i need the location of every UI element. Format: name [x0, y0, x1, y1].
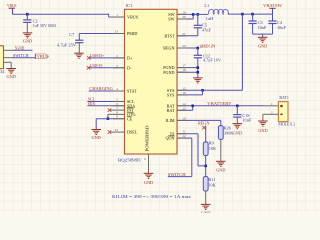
svg-text:C7: C7	[69, 32, 75, 37]
svg-text:USB-D-: USB-D-	[90, 63, 103, 68]
svg-text:GND: GND	[144, 180, 153, 185]
net label REGN	[200, 45, 202, 48]
ground C18	[233, 124, 243, 129]
wire QON to SWITCH	[168, 176, 192, 178]
wire to GND	[262, 34, 264, 37]
svg-text:10uF: 10uF	[277, 25, 286, 30]
pin 1 VBUS (left)	[116, 13, 138, 20]
svg-text:14: 14	[182, 102, 186, 106]
wire SYS rail	[203, 89, 243, 91]
pin stub right	[177, 133, 187, 135]
svg-text:13: 13	[182, 106, 186, 110]
svg-text:REGN: REGN	[202, 44, 216, 49]
svg-text:VBUS: VBUS	[37, 54, 49, 59]
pin stub right	[177, 13, 187, 15]
svg-text:L1: L1	[204, 3, 209, 8]
no-ERC cross	[108, 130, 112, 134]
pin stub BAT1 pin1	[264, 105, 279, 107]
wire TS down	[197, 134, 199, 166]
pin 21 BTST (right)	[164, 32, 186, 39]
wire SWITCH	[13, 57, 35, 59]
svg-text:10: 10	[182, 116, 186, 120]
svg-text:GND: GND	[258, 128, 267, 133]
svg-text:R11: R11	[208, 177, 215, 182]
svg-text:IC1: IC1	[126, 3, 133, 8]
svg-text:15: 15	[182, 86, 186, 90]
ground C7	[74, 53, 84, 58]
pin 19 SW (right)	[168, 10, 186, 17]
capacitor C5	[194, 14, 202, 35]
svg-text:21: 21	[182, 32, 186, 36]
svg-text:BAT1: BAT1	[279, 95, 288, 100]
svg-text:GND: GND	[92, 135, 101, 140]
wire QON down	[191, 138, 193, 177]
svg-text:12: 12	[182, 134, 186, 138]
svg-text:18: 18	[182, 68, 186, 72]
svg-text:REGN: REGN	[163, 46, 174, 51]
svg-text:4: 4	[116, 87, 118, 91]
pin stub right	[177, 35, 187, 37]
wire PMID	[79, 33, 124, 35]
pin stub left	[113, 118, 124, 120]
stub DSEL	[110, 131, 125, 133]
capacitor C2	[23, 14, 31, 33]
svg-text:10K: 10K	[208, 182, 216, 187]
wire CE	[96, 118, 124, 120]
wire SYS pin16	[177, 94, 203, 96]
svg-text:GND: GND	[216, 168, 225, 173]
svg-text:VBATSW: VBATSW	[263, 3, 283, 8]
wire STAT	[89, 90, 125, 92]
svg-text:D-: D-	[127, 65, 132, 70]
pin stub right	[177, 94, 187, 96]
wire R26 to gnd	[220, 139, 222, 161]
port VBUS	[35, 54, 49, 59]
svg-text:17: 17	[182, 64, 186, 68]
capacitor C18	[233, 106, 241, 124]
pin 22 REGN (right)	[163, 44, 186, 51]
svg-text:ILIM: ILIM	[166, 118, 175, 123]
svg-text:19: 19	[182, 10, 186, 14]
svg-text:11: 11	[182, 130, 186, 134]
svg-text:390K: 390K	[224, 130, 234, 135]
wire VBUS to pin1	[13, 13, 109, 15]
svg-text:GND: GND	[258, 44, 267, 49]
connector BAT1	[278, 102, 288, 122]
pin stub left	[113, 105, 124, 107]
no-ERC cross	[87, 66, 91, 70]
wire TS	[177, 133, 198, 135]
svg-text:D+: D+	[127, 56, 133, 61]
pin 4 STAT (left)	[116, 87, 137, 94]
wire ILIM down	[220, 120, 222, 125]
inductor L1	[208, 10, 228, 15]
pin stub left	[113, 16, 124, 18]
stub OTG	[108, 113, 125, 115]
wire PGND riser	[197, 68, 199, 78]
wire SW pin19	[177, 13, 193, 15]
svg-text:10uF: 10uF	[258, 25, 267, 30]
wire SDA	[87, 105, 124, 107]
pin stub 1	[109, 16, 125, 18]
svg-text:0: 0	[144, 157, 146, 161]
pin stub right	[177, 18, 187, 20]
pin 14 BAT (right)	[167, 102, 186, 109]
junction C3	[251, 13, 254, 16]
op-amp IC1 BQ25898D charger IC body	[125, 9, 178, 154]
svg-text:PGND: PGND	[163, 70, 174, 75]
svg-text:VBUS: VBUS	[7, 3, 17, 8]
svg-text:VBUS: VBUS	[127, 15, 139, 20]
pin 2 D+ (left)	[116, 54, 133, 61]
svg-text:4.7uF 25V: 4.7uF 25V	[57, 43, 77, 48]
pin stub left	[113, 101, 124, 103]
svg-text:SYS: SYS	[167, 93, 175, 98]
connector pin stub 3	[4, 61, 12, 63]
pin 3 D- (left)	[116, 64, 132, 71]
connector pin stub	[4, 49, 14, 51]
wire BAT1 pin2 down	[262, 114, 264, 121]
svg-text:1uF 50V 0603: 1uF 50V 0603	[33, 23, 57, 28]
svg-text:BQ25898D: BQ25898D	[118, 158, 141, 163]
pin stub right	[177, 119, 187, 121]
ground C2	[23, 33, 33, 38]
svg-text:GND: GND	[201, 211, 210, 213]
junction SW	[192, 13, 195, 16]
svg-text:GND: GND	[7, 74, 16, 79]
ground C3/C4	[258, 37, 268, 42]
svg-text:PMID: PMID	[127, 31, 137, 36]
wire BAT riser	[192, 106, 194, 111]
wire D-	[89, 67, 125, 69]
ground R11	[201, 204, 211, 209]
wire VBATSW down	[241, 14, 243, 90]
svg-text:GND: GND	[23, 38, 32, 43]
no-ERC cross	[108, 108, 112, 112]
junction SW/C5	[197, 13, 200, 16]
wire SW to L1	[193, 13, 208, 15]
pin stub right	[177, 105, 187, 107]
svg-text:1uH: 1uH	[206, 16, 213, 21]
pin 5 SCL (left)	[116, 98, 135, 105]
junction REGN	[197, 47, 200, 50]
wire SYS riser	[202, 90, 204, 95]
wire BAT pin13	[177, 109, 193, 111]
wire TS to divider	[198, 165, 206, 167]
pin 13 BAT (right)	[167, 106, 186, 113]
junction C18	[236, 105, 239, 108]
wire QON	[177, 137, 192, 139]
wire R9 to R11	[205, 156, 207, 177]
capacitor C12	[194, 48, 202, 68]
svg-text:1: 1	[271, 102, 273, 106]
pin 23 PMID (left)	[115, 30, 138, 37]
pin 17 PGND (right)	[163, 64, 186, 71]
svg-text:SDA: SDA	[88, 101, 96, 106]
svg-text:9: 9	[116, 115, 118, 119]
junction VBUS/C2	[26, 13, 29, 16]
wire SCL	[87, 101, 124, 103]
wire ILIM	[177, 119, 221, 121]
wire R11 to gnd	[205, 191, 207, 204]
svg-text:SWITCH: SWITCH	[13, 53, 29, 58]
no-ERC cross	[87, 56, 91, 60]
wire PGND pin17	[177, 67, 198, 69]
junction PGND18	[197, 71, 200, 74]
ground R26	[216, 161, 226, 166]
pin 8 OTG (left)	[116, 110, 135, 117]
pin 18 PGND (right)	[163, 68, 186, 75]
pin 7 INT (left)	[116, 106, 134, 113]
capacitor C4	[268, 14, 276, 34]
svg-text:24: 24	[115, 128, 119, 132]
svg-text:10K: 10K	[209, 146, 217, 151]
svg-text:5GND: 5GND	[15, 45, 25, 50]
svg-text:MOLEX 2: MOLEX 2	[278, 122, 295, 127]
pin 11 TS (right)	[170, 130, 186, 137]
ground POWERPAD	[144, 173, 154, 178]
pin 12 QON (right)	[166, 134, 186, 141]
pin stub right	[177, 67, 187, 69]
svg-text:R9: R9	[209, 141, 214, 146]
svg-text:SWITCH: SWITCH	[168, 172, 187, 177]
svg-text:16: 16	[182, 91, 186, 95]
junction PGND17	[197, 66, 200, 69]
svg-text:POWERPAD: POWERPAD	[144, 125, 149, 151]
pin stub left	[113, 57, 124, 59]
svg-text:BAT: BAT	[167, 108, 175, 113]
wire VBATTERY	[177, 105, 264, 107]
pin stub left	[113, 90, 124, 92]
resistor R9	[203, 142, 208, 156]
pin stub right	[177, 137, 187, 139]
pin stub left	[113, 67, 124, 69]
resistor R11	[203, 177, 208, 192]
pin stub right	[177, 47, 187, 49]
svg-text:CE: CE	[127, 116, 133, 121]
wire D+	[89, 57, 125, 59]
pin 20 SW (right)	[168, 15, 186, 22]
svg-text:23: 23	[115, 30, 119, 34]
pin 9 CE (left)	[116, 115, 132, 122]
svg-text:KILIM = 390 => 390/390 = 1A ma: KILIM = 390 => 390/390 = 1A max	[112, 194, 192, 199]
ground CE	[91, 130, 101, 135]
connector USB/SW at sheet edge	[0, 46, 4, 69]
pin 16 SYS (right)	[167, 91, 186, 98]
svg-text:SW: SW	[168, 17, 174, 22]
svg-text:GND: GND	[233, 131, 242, 136]
svg-text:10uF: 10uF	[242, 118, 251, 123]
power port VBUS	[7, 3, 17, 14]
junction VBATSW riser	[241, 13, 244, 16]
wire 5GND	[13, 49, 33, 51]
wire C3/C4 bottoms	[253, 33, 273, 35]
svg-text:2: 2	[116, 54, 118, 58]
no-ERC cross	[202, 126, 206, 130]
wire CE to gnd	[95, 119, 97, 130]
capacitor C7	[75, 34, 83, 54]
junction SYS	[201, 89, 204, 92]
wire POWERPAD	[148, 154, 150, 173]
svg-text:1: 1	[116, 13, 118, 17]
junction OTG/CE	[107, 117, 110, 120]
wire step down	[108, 14, 110, 17]
wire BTST	[177, 35, 198, 37]
pin stub left	[113, 33, 124, 35]
svg-text:CHARGING: CHARGING	[89, 86, 113, 91]
svg-text:20: 20	[182, 15, 186, 19]
svg-text:USB-D+: USB-D+	[90, 53, 104, 58]
svg-text:QON: QON	[166, 136, 175, 141]
wire L1 to VBATSW	[228, 13, 273, 15]
ground connector	[6, 69, 16, 74]
power port VBATSW	[263, 3, 283, 14]
wire PGND pin18	[177, 71, 198, 73]
pin 15 SYS (right)	[167, 86, 186, 93]
svg-text:BTST: BTST	[164, 33, 175, 38]
connector pin stub 2	[4, 57, 14, 59]
resistor R26	[218, 126, 223, 140]
pin stub right	[177, 71, 187, 73]
wire OTG down	[107, 114, 109, 118]
pin 6 SDA (left)	[116, 102, 135, 109]
ground PGND	[193, 78, 203, 83]
pin 24 DSEL (left)	[115, 128, 138, 135]
wire to ground	[10, 62, 12, 68]
pin stub right	[177, 109, 187, 111]
svg-text:DSEL: DSEL	[127, 130, 138, 135]
wire SYS pin15	[177, 89, 203, 91]
capacitor C3	[249, 14, 257, 34]
wire BAT1 pin2	[263, 113, 279, 115]
svg-text:REGN: REGN	[198, 121, 210, 126]
pin 10 ILIM (right)	[166, 116, 186, 123]
svg-text:47nF: 47nF	[202, 27, 211, 32]
junction BAT	[191, 105, 194, 108]
wire REGN	[177, 47, 198, 49]
stub INT	[110, 109, 125, 111]
wire REGN to R9	[205, 126, 207, 142]
wire SW riser	[192, 14, 194, 19]
svg-text:22: 22	[182, 44, 186, 48]
svg-text:3: 3	[116, 64, 118, 68]
junction TS divider	[204, 165, 207, 168]
ground BAT1	[258, 121, 268, 126]
svg-text:STAT: STAT	[127, 89, 137, 94]
svg-text:VBATTERY: VBATTERY	[207, 101, 232, 106]
svg-text:4.7uF 10V: 4.7uF 10V	[203, 58, 221, 63]
wire SW pin20	[177, 18, 193, 20]
pin stub right	[177, 89, 187, 91]
